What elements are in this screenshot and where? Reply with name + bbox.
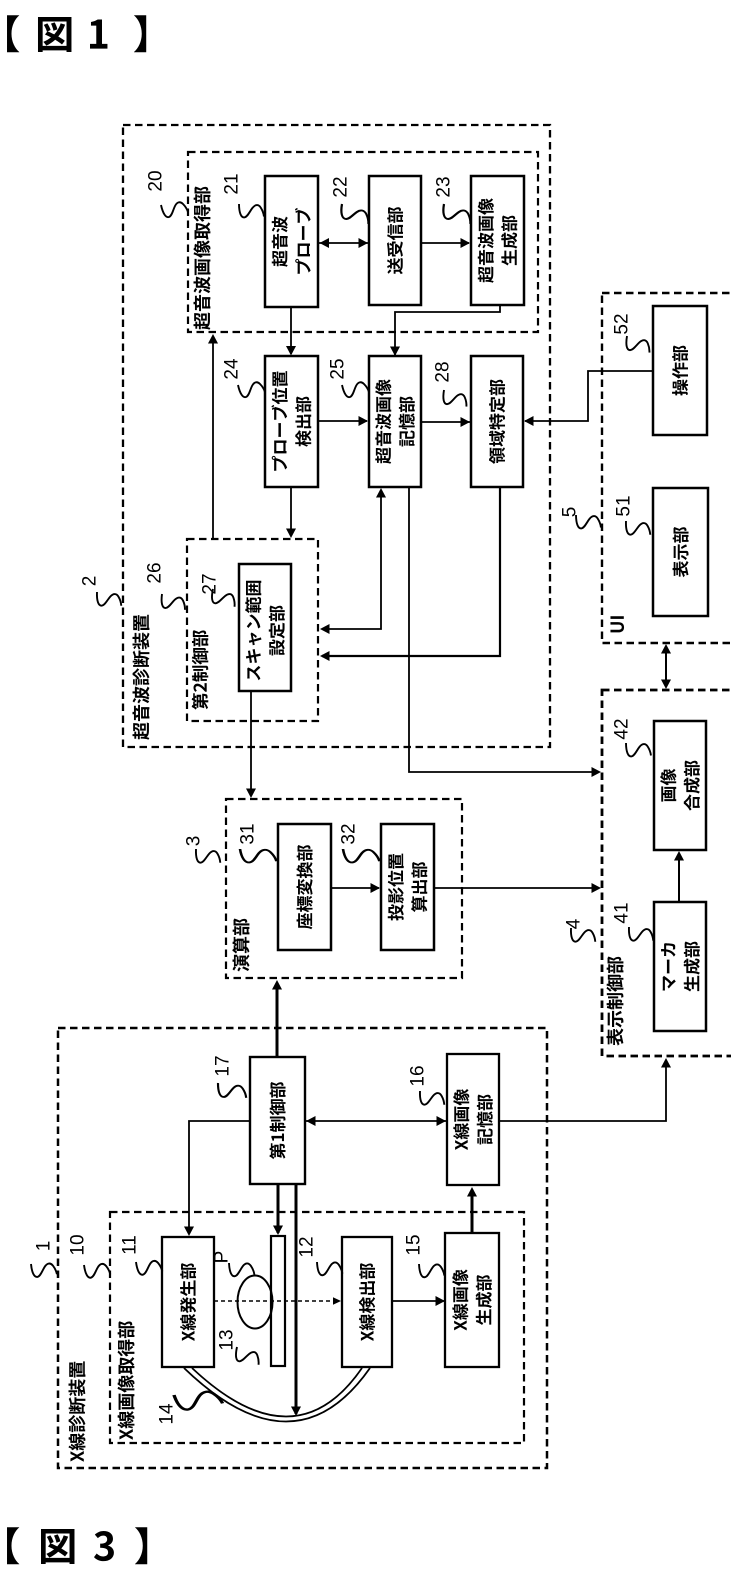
leader squiggle 5 [573, 512, 603, 532]
box 23: ultrasound image generation unit [471, 176, 524, 305]
leader squiggle P [227, 1260, 256, 1279]
label 4 text [607, 957, 624, 1046]
leader squiggle 20 [161, 202, 188, 217]
title FIG.3 [7, 1527, 147, 1564]
svg-text:31: 31 [238, 823, 259, 844]
leader squiggle 51 [623, 518, 653, 539]
text box51 [673, 527, 689, 577]
leader squiggle 52 [622, 333, 653, 357]
svg-text:5: 5 [560, 507, 581, 518]
text box42 [660, 769, 676, 802]
wire 21-24 arrow [290, 307, 292, 354]
box 12: X-ray detection unit [342, 1237, 392, 1367]
leader squiggle 22 [337, 202, 373, 229]
leader squiggle 17 [215, 1080, 249, 1102]
text box23 [478, 198, 494, 282]
wire x-ray beam dashed [214, 1300, 334, 1302]
wire 52-28 elbow arrow [525, 371, 653, 421]
svg-text:1: 1 [34, 1241, 55, 1252]
label 3 text [232, 919, 249, 972]
svg-text:P: P [212, 1251, 233, 1264]
leader squiggle 26 [158, 591, 188, 614]
C-arm 14 outer arc [184, 1368, 370, 1422]
leader squiggle 2 [94, 589, 124, 610]
leader squiggle 32 [341, 846, 381, 866]
leader squiggle 31 [238, 846, 278, 866]
wire 17-carm arrow down thick [295, 1184, 298, 1414]
box 41: marker generation unit [654, 902, 706, 1031]
svg-text:20: 20 [146, 170, 167, 191]
svg-text:14: 14 [157, 1403, 178, 1425]
svg-text:51: 51 [614, 495, 635, 516]
leader squiggle 21 [236, 201, 266, 221]
text box41 [661, 943, 676, 990]
wire 41-42 arrow up [678, 853, 680, 902]
svg-text:10: 10 [68, 1234, 89, 1255]
wire 24-25 arrow [318, 420, 367, 422]
svg-text:24: 24 [222, 358, 243, 380]
text box12 [359, 1263, 375, 1341]
svg-text:2: 2 [80, 576, 101, 587]
text box52 [672, 345, 688, 395]
leader squiggle 42 [623, 740, 653, 760]
box 28: region identification unit [471, 356, 523, 487]
dashed box 26: second control unit [187, 539, 318, 721]
text box32 [388, 854, 404, 921]
svg-text:23: 23 [434, 176, 455, 197]
svg-text:16: 16 [408, 1065, 429, 1086]
box 15: X-ray image generation unit [445, 1233, 499, 1367]
leader squiggle 1 [30, 1261, 59, 1279]
svg-text:3: 3 [184, 836, 205, 847]
svg-text:15: 15 [404, 1234, 425, 1255]
leader squiggle 10 [83, 1262, 111, 1279]
text box16 [453, 1089, 469, 1150]
label 20 text [194, 187, 211, 330]
wire 21-22 bidirectional [318, 242, 369, 244]
table 13: table top plate (thin rect) [271, 1236, 285, 1366]
leader squiggle 11 [135, 1259, 163, 1276]
wire 27-3 arrow down [250, 691, 252, 796]
leader squiggle 4 [568, 925, 598, 946]
text box15 [452, 1269, 468, 1330]
wire 17-13 arrow down thick [277, 1184, 280, 1233]
wire 26-25 bidirectional elbow [322, 490, 381, 629]
wire 25-28 arrow [421, 421, 470, 423]
box 27: scan range setting unit [239, 564, 291, 691]
text box22 [387, 207, 403, 274]
leader squiggle 28 [439, 387, 470, 411]
text box17 [269, 1082, 285, 1159]
wire 23-25 elbow arrow [395, 305, 500, 355]
label 2 text [133, 615, 150, 740]
svg-text:27: 27 [200, 573, 221, 594]
svg-text:32: 32 [339, 823, 360, 844]
wire 16-4 elbow arrow [499, 1060, 666, 1121]
wire 15-16 arrow up thick [471, 1190, 474, 1233]
leader squiggle 12 [315, 1259, 344, 1278]
dashed box 3: computation unit (enzan-bu) [226, 799, 462, 978]
label 26 text [192, 630, 209, 710]
leader squiggle 15 [417, 1261, 446, 1280]
title FIG.1 [7, 15, 146, 52]
wire 32-4 arrow [434, 887, 598, 889]
svg-text:41: 41 [612, 902, 633, 923]
leader squiggle 23 [439, 202, 475, 229]
svg-text:12: 12 [297, 1236, 318, 1257]
dashed box 5: UI [602, 293, 731, 643]
box 16: X-ray image storage unit [447, 1054, 499, 1185]
svg-text:17: 17 [213, 1055, 234, 1076]
svg-text:25: 25 [328, 358, 349, 379]
box 42: image composition unit [654, 721, 706, 850]
wire 17-16 bidirectional [305, 1120, 447, 1122]
svg-text:42: 42 [612, 718, 633, 739]
dashed box 4: display control unit [602, 690, 731, 1056]
text box28 [489, 379, 505, 463]
label 1 text [68, 1361, 85, 1461]
wire 26-20 arrow up [212, 336, 214, 539]
leader squiggle 3 [193, 846, 223, 867]
text box31 [297, 845, 313, 929]
text box25 [375, 379, 391, 463]
label UI text [610, 616, 624, 632]
leader squiggle 27 [208, 587, 239, 612]
svg-text:52: 52 [612, 313, 633, 334]
wire UI-4 bidirectional [665, 646, 667, 687]
wire 24-26 arrow down [290, 487, 292, 536]
svg-text:28: 28 [433, 361, 454, 382]
leader squiggle 41 [626, 924, 656, 945]
wire 31-32 arrow [331, 887, 379, 889]
text box27 [245, 581, 261, 681]
patient P ellipse [238, 1276, 273, 1329]
wire 25-42 elbow arrow [409, 487, 599, 772]
box 32: projection position calculation unit [381, 824, 434, 950]
C-arm 14 inner arc [192, 1368, 362, 1417]
text box21 [272, 216, 288, 266]
text box24 [271, 371, 287, 471]
box 52: operation unit [653, 306, 707, 435]
dashed box 1: X-ray diagnostic apparatus [58, 1028, 547, 1468]
box 17: first control unit [250, 1057, 305, 1184]
leader squiggle 14 [174, 1392, 223, 1410]
svg-text:4: 4 [564, 918, 585, 929]
leader squiggle 16 [417, 1088, 447, 1109]
box 24: probe position detection unit [265, 356, 318, 487]
wire 12-15 arrow [392, 1300, 444, 1302]
leader squiggle 25 [342, 382, 369, 397]
dashed box 10: X-ray image acquisition unit [110, 1212, 524, 1443]
svg-text:11: 11 [120, 1235, 141, 1255]
leader squiggle 24 [238, 382, 265, 397]
label 10 text [117, 1321, 134, 1440]
wire 17-3 arrow up thick [276, 983, 279, 1057]
text box11 [180, 1263, 196, 1341]
box 22: transmit/receive unit [369, 176, 421, 305]
svg-text:22: 22 [331, 176, 352, 197]
dashed box 20: ultrasound image acquisition unit [188, 152, 538, 332]
box 25: ultrasound image storage unit [369, 356, 421, 487]
svg-text:21: 21 [222, 173, 243, 194]
wire 22-23 arrow [421, 242, 469, 244]
svg-text:13: 13 [217, 1329, 238, 1350]
box 21: ultrasound probe [265, 176, 318, 307]
box 11: X-ray generation unit [162, 1237, 214, 1367]
leader squiggle 13 [232, 1345, 263, 1370]
box 51: display unit [653, 488, 708, 616]
svg-text:26: 26 [145, 562, 166, 583]
wire 17-11 elbow arrow [189, 1121, 250, 1234]
wire 28-26 elbow arrow [322, 487, 500, 656]
dashed box 2: ultrasound diagnostic apparatus (chou-onpa shindan souchi) [123, 125, 550, 747]
box 31: coordinate conversion unit [278, 824, 331, 950]
